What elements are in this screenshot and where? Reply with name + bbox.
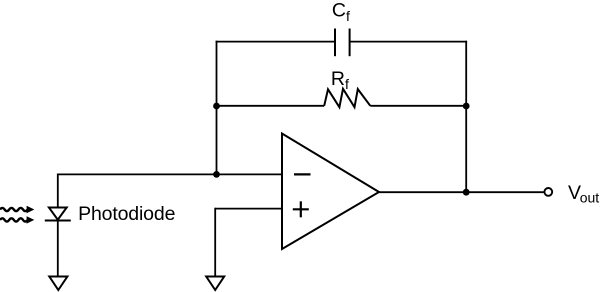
op-amp U1 plus (non-inverting) symbol — [293, 208, 309, 210]
wire: capacitor branch, left horizontal segment — [216, 41, 335, 43]
wire: left feedback rail, top segment (Cf corner to Rf junction) — [216, 41, 218, 106]
wire: right feedback rail, bottom segment (Rf junction to output node) — [465, 106, 467, 192]
op-amp U1 (triangle body) — [282, 134, 379, 250]
op-amp U1 minus (inverting) symbol — [294, 173, 311, 175]
svg-text:Rf: Rf — [331, 68, 349, 92]
photodiode D1 (cathode bar) — [45, 220, 71, 222]
wire: op-amp output to Vout terminal — [379, 191, 544, 193]
wire: left feedback rail, bottom segment (Rf junction to inverting node) — [216, 106, 218, 174]
junction: left rail / Rf branch — [213, 103, 220, 110]
junction: output node — [463, 189, 470, 196]
wire: inverting input (photodiode node to op-amp minus input) — [58, 173, 282, 175]
wire: capacitor branch, right horizontal segment — [350, 41, 468, 43]
wire: non-inverting input horizontal segment — [215, 208, 282, 210]
wire: photodiode cathode to ground — [57, 221, 59, 277]
svg-text:Photodiode: Photodiode — [78, 203, 175, 225]
wire: photodiode anode (inverting node down to diode) — [57, 174, 59, 208]
ground symbol (photodiode) — [49, 277, 67, 291]
junction: right rail / Rf branch — [463, 103, 470, 110]
svg-text:Vout: Vout — [568, 182, 599, 205]
terminal: Vout (open circle) — [544, 188, 552, 196]
capacitor Cf, right plate — [349, 29, 351, 57]
capacitor Cf, left plate — [334, 29, 336, 57]
wire: Rf branch, right horizontal segment — [370, 105, 466, 107]
wire: non-inverting input drop to ground — [214, 208, 216, 277]
junction: inverting input node — [213, 171, 220, 178]
ground symbol (non-inverting input) — [206, 277, 224, 291]
resistor Rf (zigzag) — [324, 89, 370, 107]
wire: Rf branch, left horizontal segment — [217, 105, 325, 107]
wire: right feedback rail, top segment (Cf corner to Rf junction) — [465, 41, 467, 106]
photodiode D1 (triangle) — [49, 208, 67, 220]
light arrow 2 (wavy, lower) — [0, 216, 34, 223]
svg-text:Cf: Cf — [332, 0, 350, 24]
light arrow 1 (wavy, upper) — [0, 206, 34, 213]
